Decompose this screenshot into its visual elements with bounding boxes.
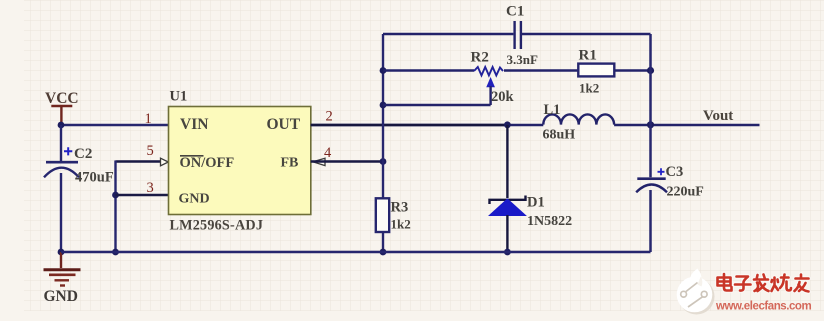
power port VCC: [45, 90, 79, 123]
junction R3/rail: [380, 249, 387, 256]
wire pin 3 GND net: [116, 194, 169, 196]
svg-text:GND: GND: [179, 192, 210, 207]
wire output vertical upper: [649, 34, 652, 177]
svg-text:1k2: 1k2: [391, 217, 411, 232]
svg-text:L1: L1: [544, 102, 561, 118]
junction D1/rail: [504, 249, 511, 256]
ground rail wire: [61, 251, 651, 254]
junction FB: [380, 158, 387, 165]
watermark text halo: [718, 274, 809, 292]
svg-text:3: 3: [147, 180, 154, 196]
junction R2 left: [380, 67, 387, 74]
svg-text:1k2: 1k2: [579, 81, 599, 96]
wire FB vertical (top wire corner down through R3): [382, 34, 384, 198]
svg-text:5: 5: [147, 143, 154, 159]
wire FB net (pin4 to vertical): [311, 160, 383, 162]
svg-text:VIN: VIN: [180, 116, 208, 133]
junction vertical/ground rail: [112, 249, 119, 256]
junction Vout vertical: [647, 121, 654, 128]
capacitor C2: [44, 146, 114, 186]
svg-text:470uF: 470uF: [75, 170, 114, 186]
junction OUT/D1: [504, 121, 511, 128]
capacitor C1: [506, 4, 538, 68]
junction R1/vertical: [647, 67, 654, 74]
svg-text:C1: C1: [506, 4, 524, 20]
pin 4 input arrow: [313, 158, 325, 165]
svg-text:220uF: 220uF: [667, 185, 704, 200]
wire C2 upper: [60, 125, 62, 161]
junction VCC/C2: [58, 122, 65, 129]
svg-text:www.elecfans.com: www.elecfans.com: [715, 301, 811, 313]
pin 5 input arrow: [161, 158, 169, 166]
svg-text:Vout: Vout: [703, 108, 733, 124]
svg-text:1N5822: 1N5822: [527, 214, 572, 229]
wire OUT net (pin2 to L1): [311, 124, 544, 126]
wire vertical to ground rail: [114, 161, 116, 253]
resistor R3: [376, 198, 411, 232]
svg-text:20k: 20k: [491, 89, 515, 105]
junction C2/ground rail: [58, 249, 65, 256]
wire top net right of C1: [522, 33, 651, 35]
svg-text:R2: R2: [471, 50, 489, 66]
svg-text:GND: GND: [44, 288, 78, 305]
wire VCC to pin 1: [61, 124, 169, 126]
ground: [44, 252, 81, 286]
wire pin 5 ON/OFF net: [116, 160, 161, 162]
wire top net left of C1: [383, 33, 513, 35]
watermark logo: [677, 269, 715, 315]
wire C2 lower: [60, 173, 62, 252]
capacitor C3: [636, 164, 704, 200]
inductor L1: [543, 102, 615, 143]
svg-text:U1: U1: [170, 89, 188, 105]
IC U1 LM2596S-ADJ: [169, 107, 311, 215]
svg-text:3.3nF: 3.3nF: [507, 52, 538, 67]
svg-text:C2: C2: [74, 146, 92, 162]
wire L1 to Vout node: [614, 124, 759, 126]
potentiometer R2: [383, 50, 578, 106]
junction pin3/vertical: [112, 192, 119, 199]
resistor R1: [578, 48, 650, 96]
svg-text:R1: R1: [579, 48, 597, 64]
watermark text 电子发烧友: [718, 274, 809, 292]
svg-text:VCC: VCC: [45, 90, 79, 107]
svg-text:R3: R3: [391, 200, 409, 216]
svg-text:LM2596S-ADJ: LM2596S-ADJ: [170, 218, 264, 234]
svg-text:2: 2: [326, 109, 333, 125]
svg-text:D1: D1: [527, 195, 545, 211]
svg-text:FB: FB: [281, 156, 299, 171]
svg-text:ON/OFF: ON/OFF: [180, 155, 235, 171]
svg-text:1: 1: [145, 111, 152, 127]
svg-text:C3: C3: [666, 164, 684, 180]
diode D1 1N5822: [489, 125, 572, 252]
wire R3 bottom to rail: [382, 232, 384, 252]
svg-text:OUT: OUT: [267, 116, 301, 133]
junction wiper: [380, 102, 387, 109]
wire output vertical lower: [649, 190, 652, 252]
svg-text:68uH: 68uH: [543, 128, 576, 143]
